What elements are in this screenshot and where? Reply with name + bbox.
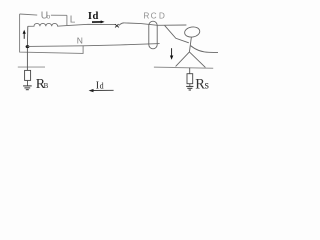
current arrow up (return current) [23,30,26,39]
label RCD [143,11,165,21]
svg-text:D: D [159,11,165,21]
wire L conductor [67,24,116,25]
svg-text:RC: RC [143,11,157,21]
switch contact X mark [115,24,119,27]
resistor RS [187,74,193,84]
svg-text:L: L [70,15,76,26]
wire fault branch to person arm [165,25,189,42]
svg-text:Id: Id [88,11,99,22]
ground symbol RB [23,86,32,90]
current arrow Id left (bottom) [89,89,114,92]
ground floor line left [18,66,45,68]
switch blade [119,23,125,26]
wire RB to ground [27,80,29,86]
wire RS to ground [189,84,191,87]
wire N conductor [28,44,160,47]
person body [189,37,191,52]
person right arm [191,46,218,53]
label RB [36,77,49,92]
node U0 measurement bracket [20,14,84,53]
wire L conductor after switch [125,23,187,25]
person right leg [189,52,205,68]
person head [184,26,201,38]
ground floor line right [154,67,213,68]
svg-text:B: B [44,82,49,90]
wire winding left lead down [26,26,28,46]
current arrow down at person [170,48,173,60]
label RS [195,76,209,92]
current arrow Id right [92,20,105,23]
inductor winding (transformer secondary) [28,23,67,26]
node junction dot [26,45,30,48]
label U0 [41,11,51,22]
svg-text:s: s [205,79,210,91]
svg-text:N: N [77,35,83,45]
svg-text:o: o [47,14,51,21]
resistor RB [25,70,31,80]
ground symbol RS [186,86,193,90]
RCD toroid core [149,21,157,49]
wire to resistor RS [189,68,191,74]
svg-text:d: d [100,82,104,91]
wire to resistor RB [26,48,28,70]
label Id (bottom return current) [96,81,104,92]
person left leg [176,52,190,67]
